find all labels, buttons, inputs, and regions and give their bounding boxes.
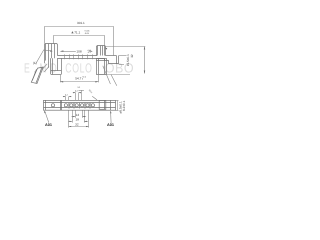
svg-text:A01: A01 xyxy=(107,123,114,127)
svg-text:54.7: 54.7 xyxy=(75,76,81,80)
svg-text:A01: A01 xyxy=(45,123,52,127)
svg-text:18: 18 xyxy=(76,118,80,122)
svg-text:108: 108 xyxy=(76,50,81,54)
svg-text:71.1: 71.1 xyxy=(74,30,80,34)
svg-text:COLO: COLO xyxy=(65,61,92,76)
svg-text:32: 32 xyxy=(75,123,79,127)
svg-text:301.1: 301.1 xyxy=(77,21,85,25)
svg-text:8.2±0.1: 8.2±0.1 xyxy=(122,100,126,111)
svg-text:13: 13 xyxy=(76,113,80,117)
svg-text:E.MD: E.MD xyxy=(24,61,60,76)
svg-text:32: 32 xyxy=(130,54,134,58)
